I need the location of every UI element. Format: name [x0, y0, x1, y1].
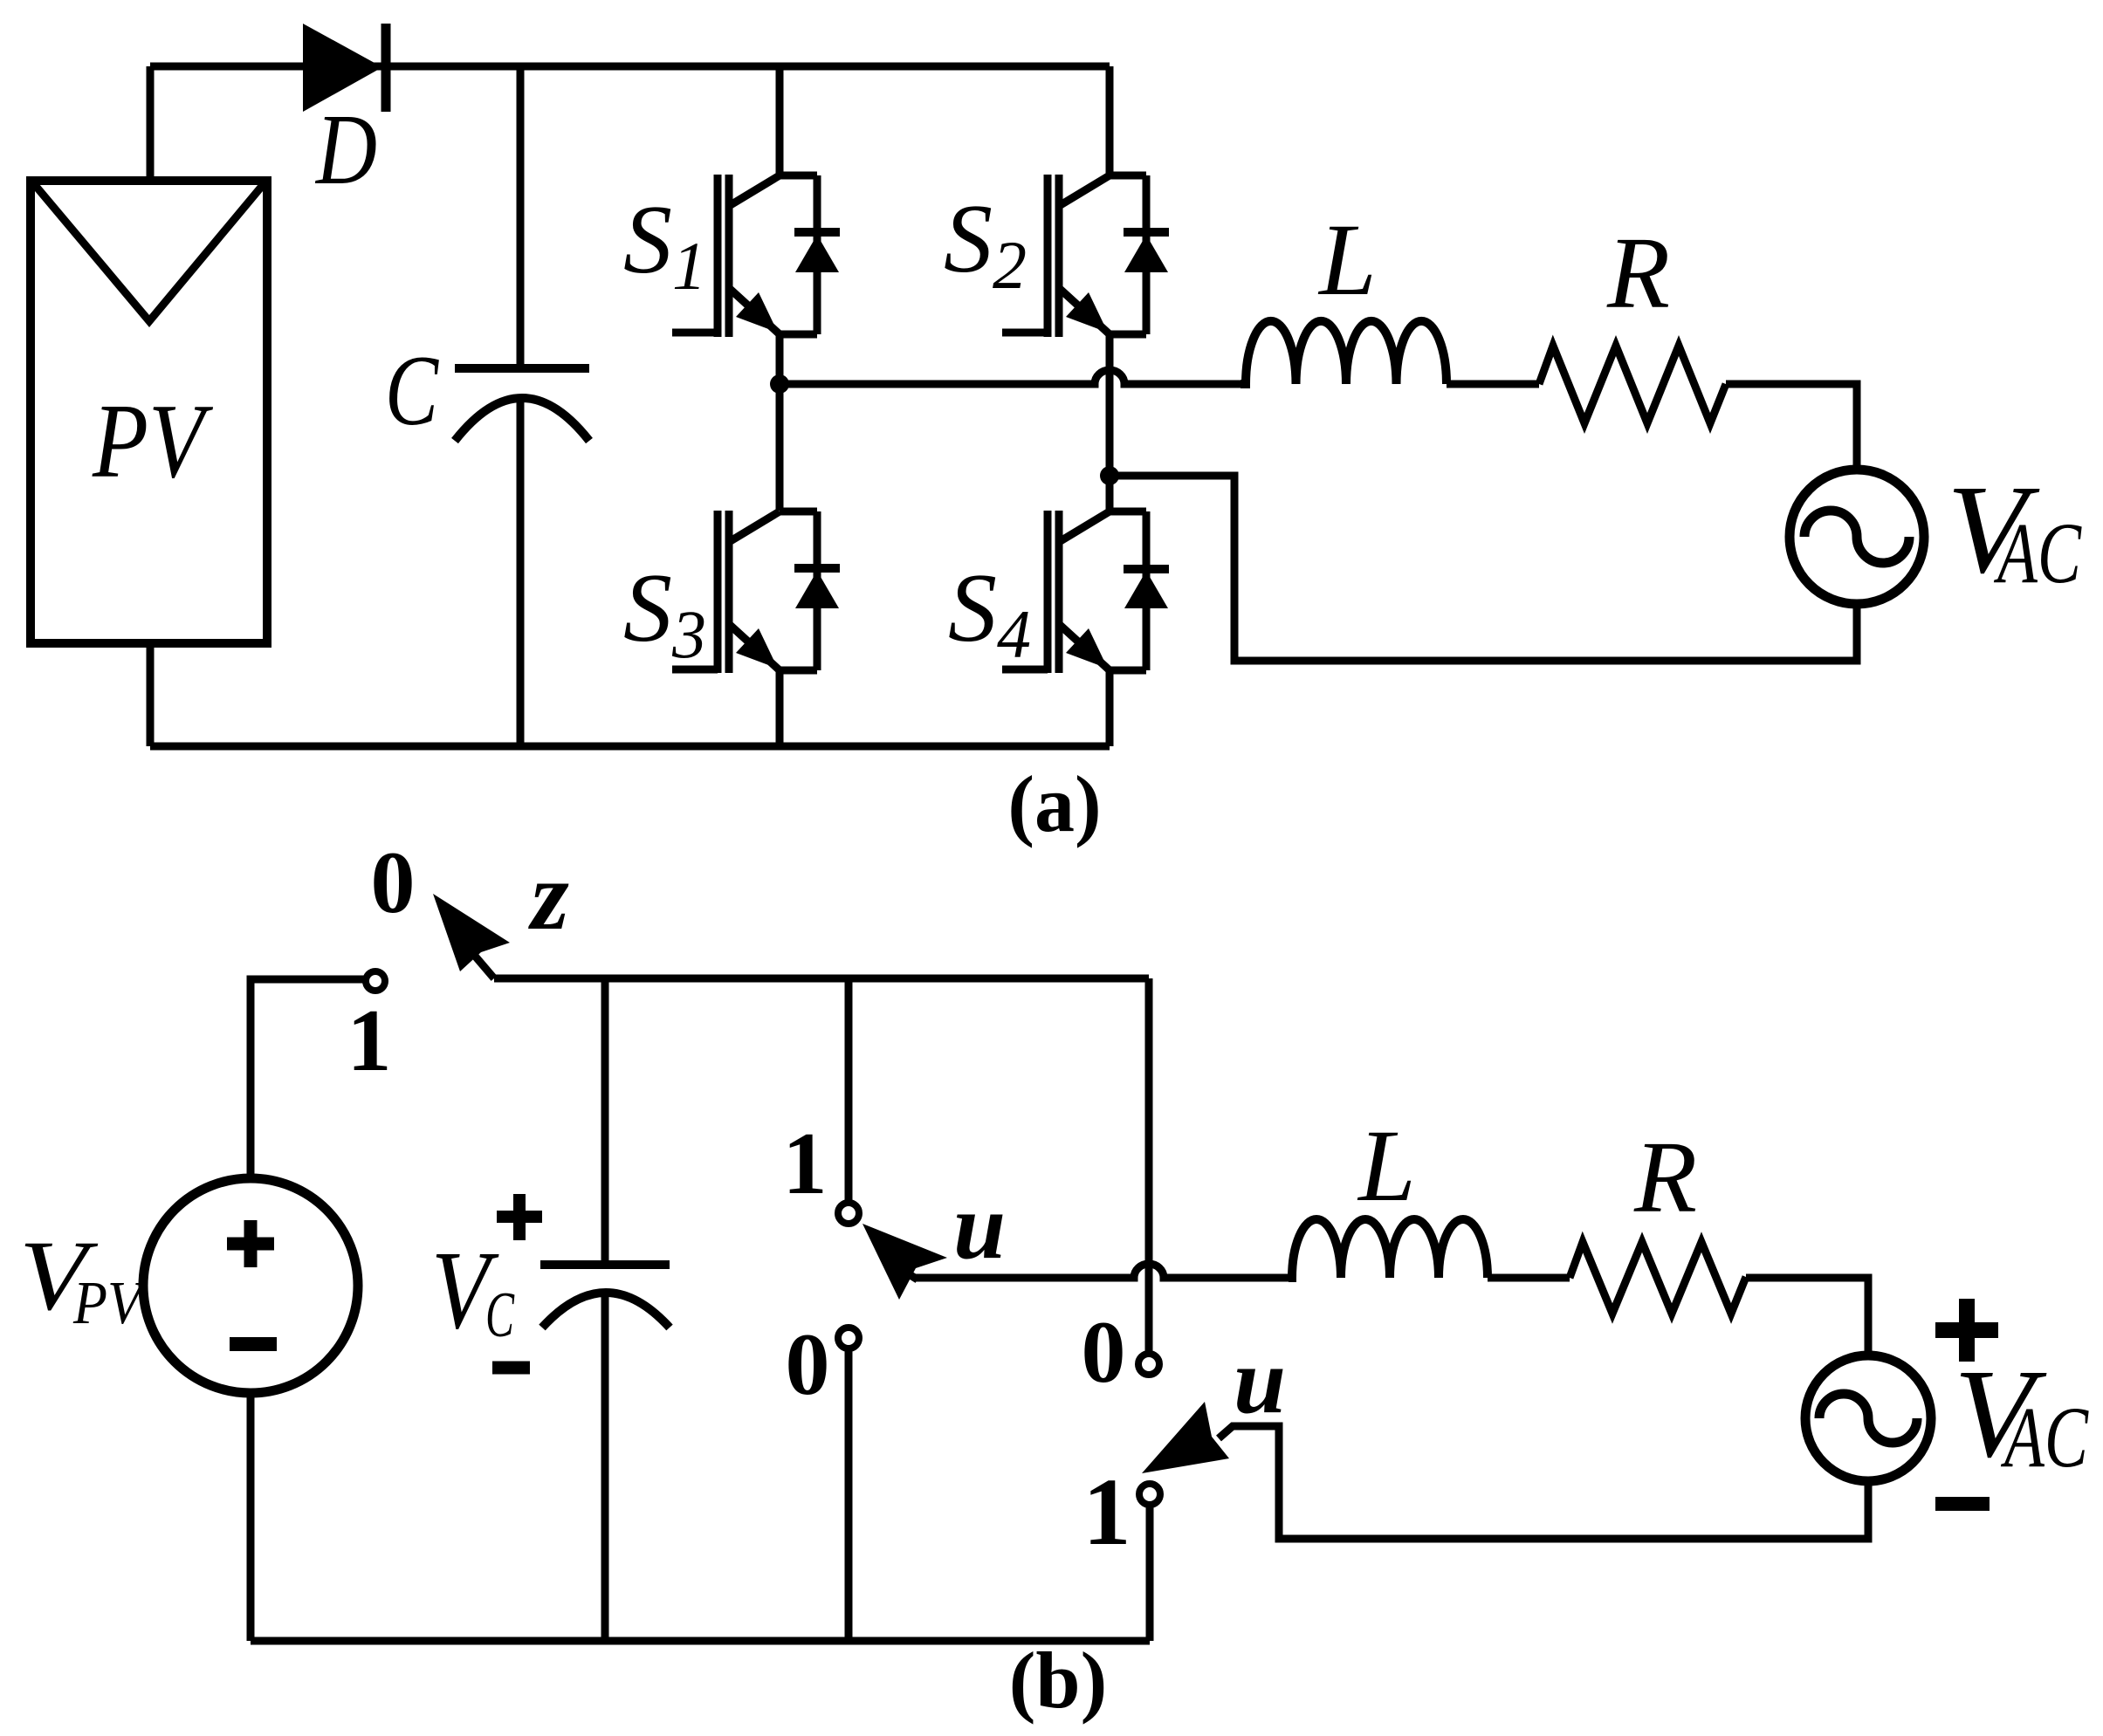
svg-text:0: 0	[1082, 1303, 1126, 1402]
svg-text:z: z	[527, 842, 569, 950]
wire left leg bottom	[776, 670, 784, 746]
svg-text:R: R	[1606, 216, 1670, 330]
wire node A to inductor with hop over right leg	[780, 370, 1240, 384]
transistor S4 (IGBT)	[1002, 511, 1169, 673]
wire right leg (b)	[1145, 978, 1153, 1354]
resistor R (b)	[1570, 1242, 1746, 1314]
svg-text:u: u	[953, 1175, 1006, 1279]
switch u2 throw-1 terminal	[1139, 1484, 1160, 1505]
plus sign VAC (b)	[1935, 1299, 1998, 1362]
wire PV bottom lead	[147, 643, 155, 746]
ac source VAC (b)	[1805, 1355, 1931, 1481]
svg-text:0: 0	[371, 834, 416, 932]
ac source VAC (a)	[1790, 470, 1924, 604]
wire right leg bottom	[1106, 670, 1114, 746]
svg-text:(a): (a)	[1007, 759, 1101, 848]
wire PV top lead	[147, 66, 155, 181]
wire VPV top lead	[251, 979, 366, 1178]
wire top bus	[150, 63, 1110, 71]
plus sign VC	[497, 1194, 542, 1240]
svg-text:1: 1	[347, 992, 392, 1090]
switch u1 throw-1 terminal	[838, 1203, 859, 1224]
node A junction dot	[770, 374, 789, 394]
wire bottom bus	[150, 743, 1110, 751]
svg-text:PV: PV	[92, 382, 214, 500]
svg-text:C: C	[385, 335, 439, 447]
wire R to AC source (a)	[1726, 384, 1857, 470]
voltage source VPV	[143, 1178, 358, 1393]
wire AC source return to switch u2 (b)	[1219, 1426, 1868, 1539]
svg-text:C: C	[485, 1280, 515, 1351]
wire VPV bottom lead	[247, 1393, 255, 1641]
wire left leg middle	[776, 334, 784, 511]
wire L to R (b)	[1488, 1274, 1570, 1282]
minus sign VC	[492, 1362, 530, 1375]
svg-text:L: L	[1357, 1108, 1416, 1223]
wire right leg upper	[1106, 66, 1114, 175]
svg-text:1: 1	[1083, 1458, 1131, 1565]
switch u2 arm arrowhead	[1142, 1402, 1229, 1473]
capacitor C	[455, 66, 589, 746]
resistor R (a)	[1539, 346, 1726, 423]
wire right leg middle	[1106, 334, 1114, 511]
svg-text:L: L	[1317, 202, 1377, 317]
svg-text:PV: PV	[72, 1270, 148, 1337]
svg-text:AC: AC	[2000, 1389, 2088, 1486]
wire u pole to inductor with hop over right leg (b)	[916, 1264, 1289, 1278]
wire left leg upper	[776, 66, 784, 175]
switch u1 arm with arrow	[863, 1224, 947, 1300]
capacitor VC	[540, 978, 670, 1641]
svg-text:0: 0	[786, 1315, 830, 1414]
svg-text:R: R	[1633, 1120, 1697, 1234]
wire top bus (b)	[494, 975, 1149, 983]
inductor L (a)	[1240, 321, 1447, 384]
wire L to R (a)	[1447, 381, 1539, 388]
minus sign VAC (b)	[1935, 1497, 1990, 1511]
wire switch u2 lower leg	[1146, 1505, 1154, 1641]
transistor S1 (IGBT)	[672, 175, 840, 337]
svg-text:(b): (b)	[1009, 1636, 1107, 1725]
svg-text:1: 1	[783, 1115, 828, 1213]
switch z throw-1 terminal	[366, 971, 385, 991]
wire switch u1 upper leg	[845, 978, 853, 1203]
svg-text:D: D	[314, 94, 377, 206]
switch u1 throw-0 terminal	[838, 1328, 859, 1348]
switch z arm with arrow	[433, 894, 510, 978]
transistor S2 (IGBT)	[1002, 175, 1169, 337]
solar panel PV	[31, 181, 267, 643]
svg-text:AC: AC	[1993, 504, 2081, 601]
diode D	[303, 24, 386, 112]
wire switch u1 lower leg	[845, 1348, 853, 1641]
svg-text:u: u	[1234, 1329, 1286, 1433]
wire bottom bus (b)	[251, 1637, 1150, 1645]
transistor S3 (IGBT)	[672, 511, 840, 673]
wire node B to AC source return (a)	[1110, 476, 1857, 661]
inductor L (b)	[1289, 1219, 1488, 1278]
wire R to AC source (b)	[1746, 1278, 1868, 1355]
switch u2 throw-0 terminal	[1138, 1354, 1159, 1375]
node B junction dot	[1100, 466, 1119, 485]
